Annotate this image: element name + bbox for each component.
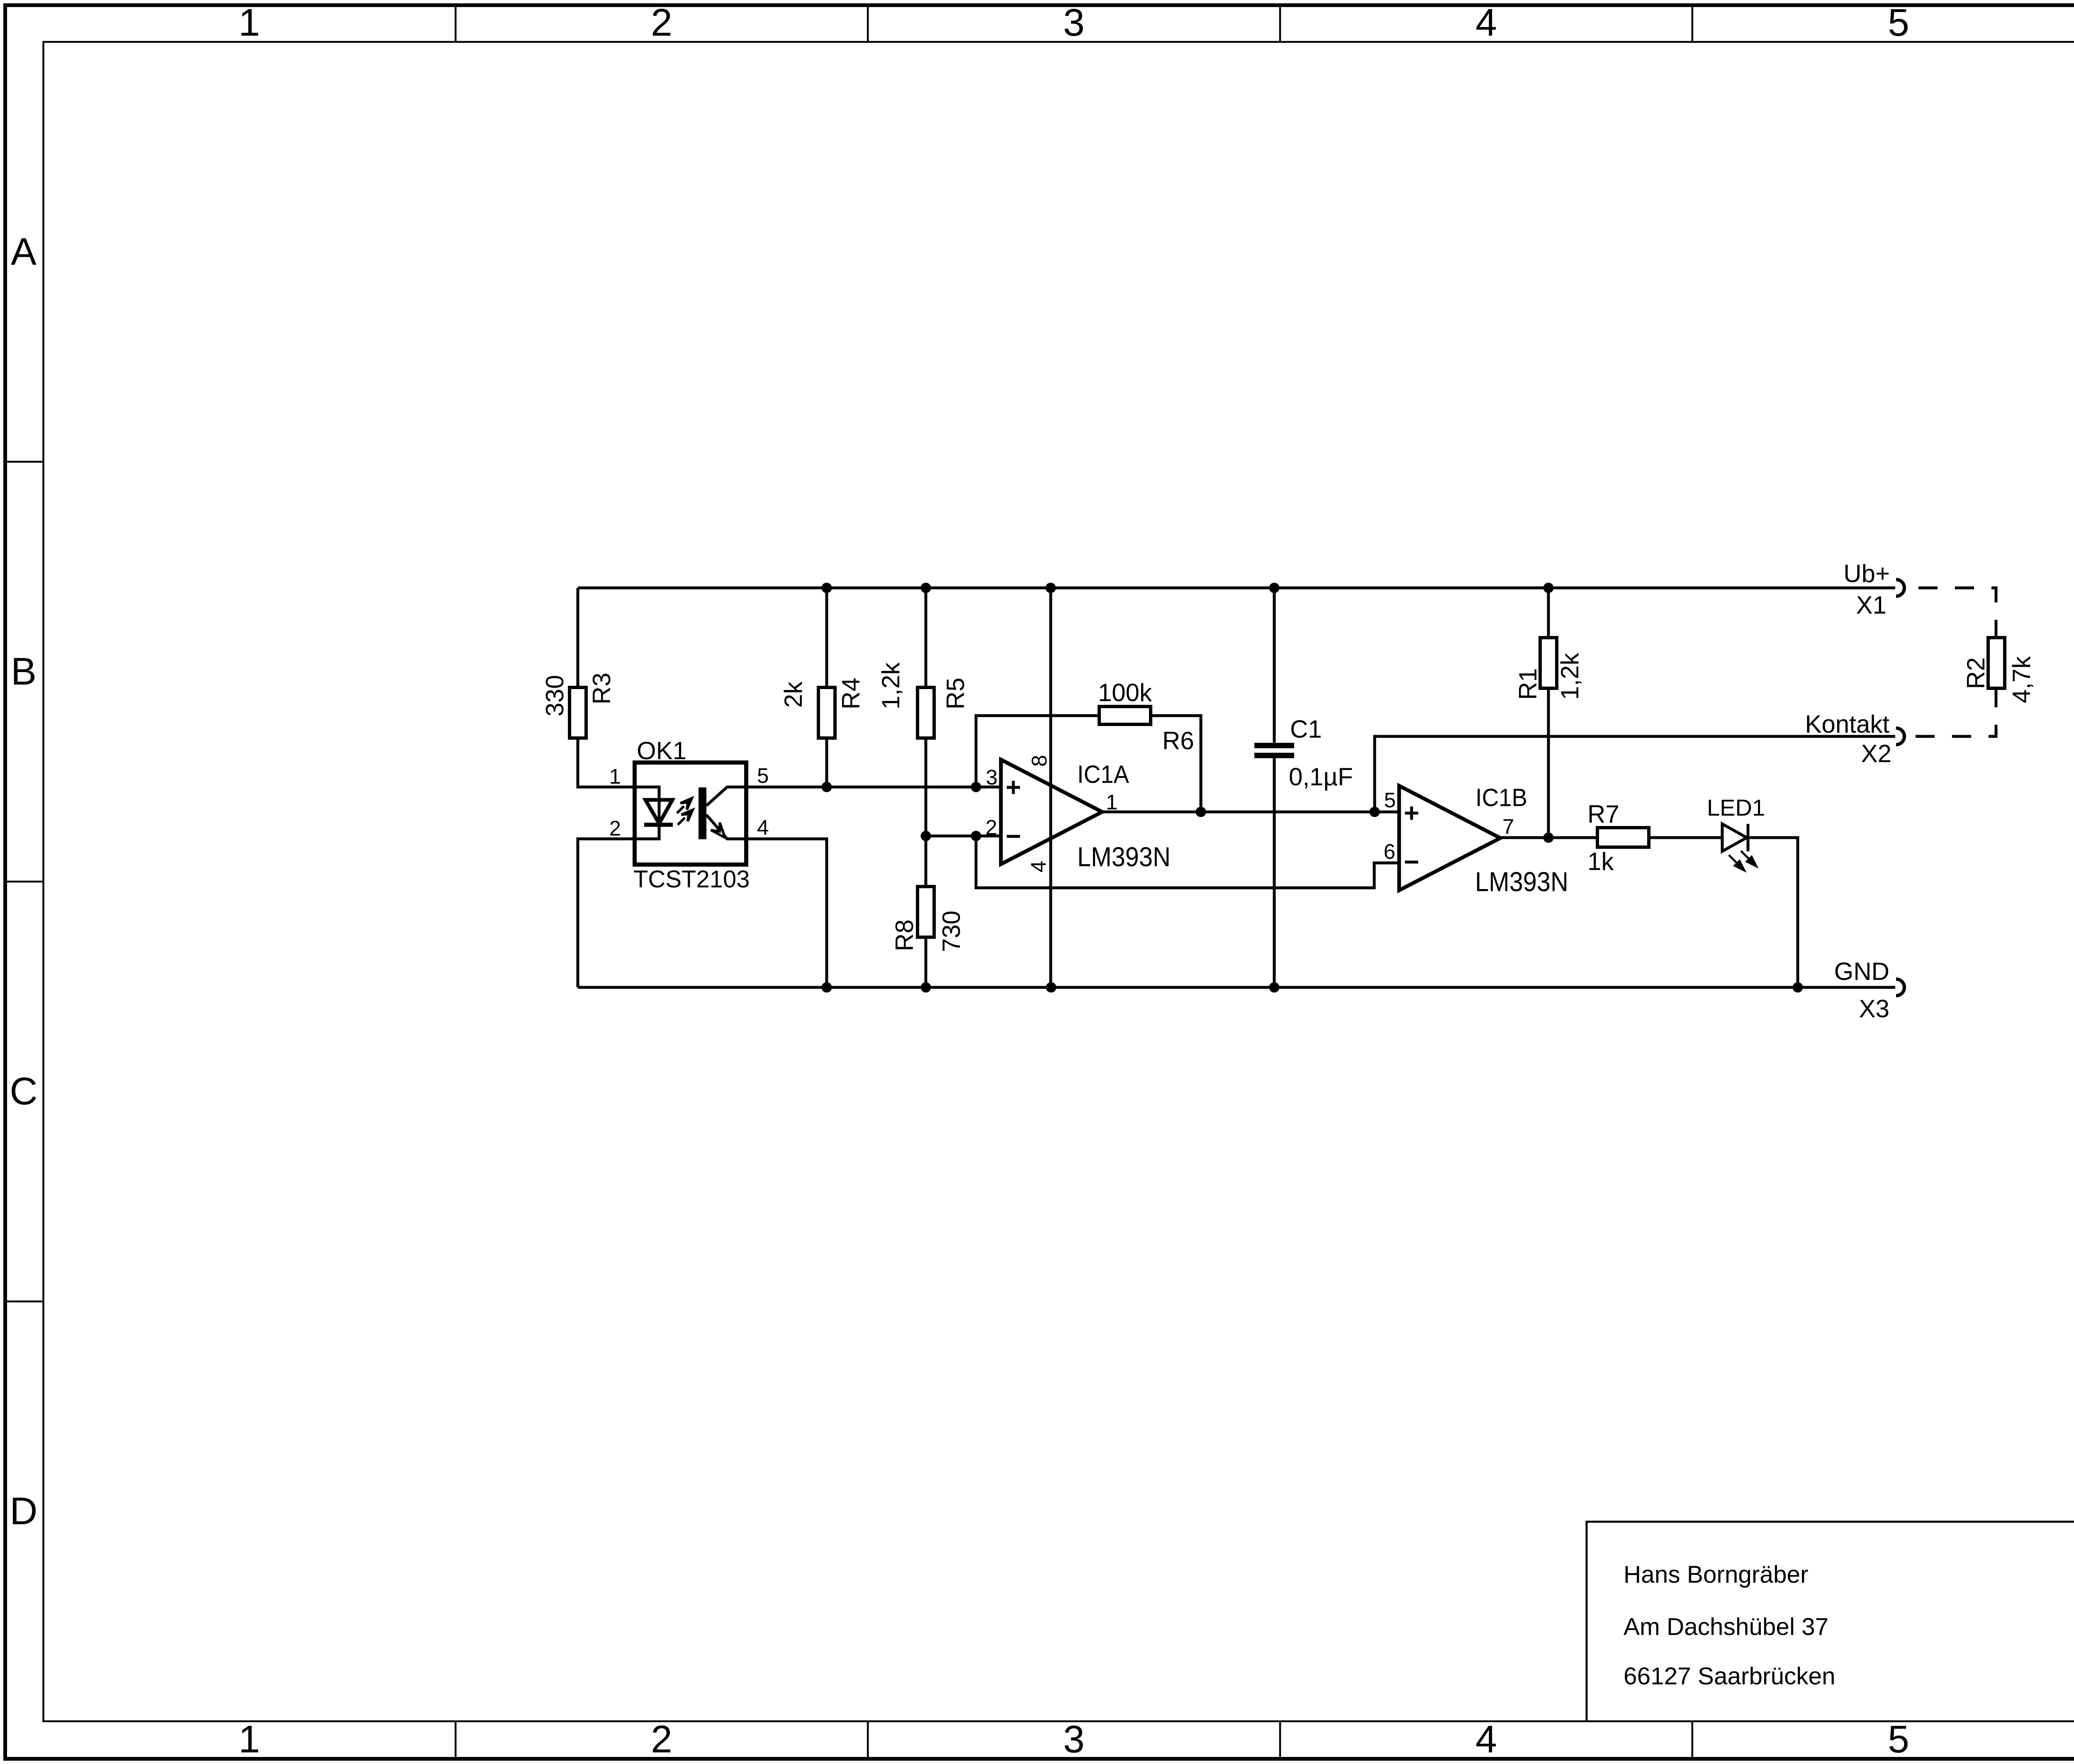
- svg-text:2: 2: [986, 816, 997, 839]
- svg-text:Hans Borngräber: Hans Borngräber: [1624, 1561, 1809, 1588]
- svg-text:C1: C1: [1290, 715, 1322, 743]
- wire R2 to X2 dashed: [1908, 688, 1996, 736]
- junction J12: [1543, 833, 1554, 843]
- junction J1: [822, 583, 832, 593]
- svg-text:GND: GND: [1834, 958, 1889, 985]
- svg-text:8: 8: [1027, 755, 1051, 767]
- op-amp IC1B: [1399, 786, 1500, 890]
- junction J16: [1269, 982, 1280, 993]
- optocoupler OK1 box: [635, 763, 746, 865]
- svg-text:OK1: OK1: [637, 737, 686, 765]
- svg-text:R6: R6: [1162, 727, 1194, 755]
- junction J2: [921, 583, 931, 593]
- wire X1 to R2 dashed: [1908, 588, 1996, 638]
- svg-text:Kontakt: Kontakt: [1805, 710, 1890, 738]
- svg-text:C: C: [10, 1070, 37, 1113]
- junction J10: [1196, 807, 1206, 817]
- junction J8: [921, 831, 931, 841]
- svg-text:1: 1: [1106, 790, 1117, 814]
- svg-text:LM393N: LM393N: [1475, 866, 1568, 897]
- junction J4: [1269, 583, 1280, 593]
- svg-text:66127 Saarbrücken: 66127 Saarbrücken: [1624, 1663, 1835, 1690]
- IC1A power pins 8/4 vertical: [1049, 588, 1052, 987]
- OK1 internal LED: [635, 787, 673, 839]
- svg-text:3: 3: [986, 765, 998, 789]
- resistor R2: [1988, 638, 2005, 688]
- svg-text:R2: R2: [1962, 657, 1990, 689]
- svg-text:5: 5: [757, 764, 769, 787]
- junction J14: [921, 982, 931, 993]
- svg-text:100k: 100k: [1098, 679, 1152, 707]
- svg-text:Am Dachshübel 37: Am Dachshübel 37: [1624, 1613, 1828, 1640]
- junction J5: [1543, 583, 1554, 593]
- svg-text:X1: X1: [1856, 591, 1887, 619]
- LED1 light arrows: [1729, 851, 1756, 870]
- svg-text:730: 730: [937, 911, 965, 952]
- wire OK1 pin5 to IC1A plus input: [746, 786, 1001, 789]
- OK1 light arrows: [677, 798, 693, 825]
- svg-text:3: 3: [1063, 1, 1085, 44]
- svg-text:5: 5: [1888, 1, 1909, 44]
- junction J15: [1046, 982, 1056, 993]
- connector pin X2: [1896, 728, 1904, 745]
- svg-text:IC1B: IC1B: [1475, 784, 1527, 811]
- svg-text:R5: R5: [942, 677, 969, 709]
- svg-text:1: 1: [609, 765, 621, 788]
- wire LED1 to GND: [1750, 838, 1798, 987]
- junction J9: [971, 831, 981, 841]
- wire Kontakt net: [1375, 736, 1895, 812]
- svg-text:X2: X2: [1861, 740, 1891, 767]
- svg-text:TCST2103: TCST2103: [633, 866, 750, 893]
- svg-text:1,2k: 1,2k: [1556, 653, 1584, 700]
- resistor R3: [570, 687, 586, 738]
- resistor R7: [1597, 828, 1649, 847]
- svg-text:2k: 2k: [779, 681, 807, 708]
- svg-text:1: 1: [239, 1718, 260, 1761]
- svg-text:B: B: [11, 650, 37, 693]
- svg-text:6: 6: [1384, 840, 1395, 863]
- wire minus bus to IC1B pin 6: [976, 836, 1399, 888]
- junction J13: [822, 982, 832, 993]
- svg-text:IC1A: IC1A: [1077, 760, 1129, 788]
- junction J7: [971, 782, 981, 792]
- junction J6: [822, 782, 832, 792]
- svg-text:R7: R7: [1587, 800, 1619, 828]
- svg-text:330: 330: [541, 675, 569, 716]
- svg-text:2: 2: [609, 816, 621, 840]
- wire IC1A minus input: [926, 835, 1001, 838]
- svg-text:R4: R4: [837, 677, 865, 709]
- svg-text:D: D: [10, 1489, 37, 1533]
- svg-text:LM393N: LM393N: [1077, 841, 1171, 872]
- wire IC1A output: [1102, 811, 1399, 814]
- resistor R1: [1540, 588, 1557, 838]
- svg-text:0,1µF: 0,1µF: [1289, 763, 1353, 791]
- svg-text:1: 1: [239, 1, 260, 44]
- svg-text:LED1: LED1: [1707, 794, 1765, 821]
- svg-text:4: 4: [1475, 1, 1497, 44]
- capacitor C1: [1254, 588, 1294, 987]
- svg-text:4,7k: 4,7k: [2008, 656, 2035, 703]
- svg-text:4: 4: [1475, 1718, 1497, 1761]
- resistor R4: [818, 588, 835, 787]
- junction J17: [1793, 982, 1803, 993]
- diode LED1: [1722, 824, 1748, 851]
- svg-text:R8: R8: [891, 919, 918, 951]
- svg-text:4: 4: [1027, 861, 1050, 872]
- svg-text:2: 2: [651, 1718, 672, 1761]
- wire GND rail: [578, 986, 1895, 989]
- OK1 phototransistor: [699, 787, 746, 839]
- svg-text:A: A: [11, 230, 37, 273]
- connector pin X1: [1896, 580, 1904, 596]
- svg-text:R1: R1: [1514, 668, 1542, 700]
- svg-text:5: 5: [1888, 1718, 1909, 1761]
- svg-text:2: 2: [651, 1, 672, 44]
- op-amp IC1A: [1001, 760, 1102, 864]
- resistor R8: [918, 836, 934, 987]
- svg-text:R3: R3: [588, 672, 616, 704]
- wire R7 to LED1: [1649, 836, 1722, 839]
- svg-text:7: 7: [1502, 815, 1514, 838]
- junction J11: [1370, 807, 1380, 817]
- wire IC1B output: [1500, 836, 1597, 839]
- resistor R6 feedback: [976, 707, 1201, 812]
- svg-text:1k: 1k: [1587, 848, 1614, 875]
- wire R3 to OK1 pin 1: [578, 738, 635, 787]
- svg-text:X3: X3: [1859, 995, 1889, 1023]
- svg-text:5: 5: [1384, 788, 1396, 812]
- title block frame: [1587, 1522, 2074, 1721]
- svg-text:1,2k: 1,2k: [877, 662, 905, 709]
- svg-text:3: 3: [1063, 1718, 1085, 1761]
- wire OK1 pin 2 to GND: [578, 839, 635, 987]
- svg-text:4: 4: [757, 816, 769, 839]
- wire R3 top leg: [577, 588, 579, 687]
- wire OK1 pin4 loop to GND: [746, 839, 827, 987]
- connector pin X3: [1896, 979, 1904, 996]
- svg-text:Ub+: Ub+: [1843, 560, 1890, 587]
- wire Ub+ top rail: [578, 587, 1895, 590]
- resistor R5: [918, 588, 934, 836]
- junction J3: [1046, 583, 1056, 593]
